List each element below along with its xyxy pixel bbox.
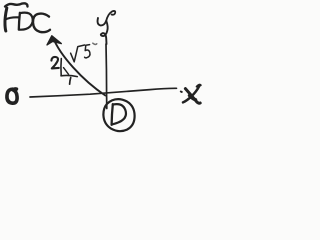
slope triangle : vertical side (rise 2) xyxy=(60,59,62,76)
label y : cursive y merging into axis xyxy=(93,11,115,45)
label F_DC : subscript C xyxy=(33,14,50,33)
label sqrt(5) : radical sign xyxy=(71,45,85,62)
node D : letter D xyxy=(112,104,126,125)
label F_DC : letter F xyxy=(5,3,28,31)
label 1 xyxy=(70,78,71,85)
label sqrt(5) : digit 5 xyxy=(85,45,90,58)
vector F_DC : arrowhead xyxy=(47,36,61,45)
node D : circle around D xyxy=(103,99,134,131)
slope triangle : horizontal side (run 1) xyxy=(61,75,77,76)
y axis : vertical line xyxy=(105,44,108,109)
label 2 xyxy=(51,57,58,68)
x axis : horizontal line xyxy=(30,88,177,97)
slope triangle : inner tick xyxy=(64,68,69,75)
vector F_DC : shaft from origin up-left xyxy=(53,38,105,96)
label x xyxy=(181,85,201,104)
label F_DC : subscript D xyxy=(19,13,33,30)
label o (origin) xyxy=(6,89,18,104)
